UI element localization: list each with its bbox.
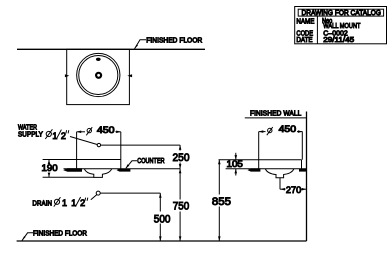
svg-text:DATE: DATE — [296, 37, 312, 44]
855 top arrow — [218, 160, 221, 165]
svg-text:105: 105 — [227, 159, 243, 169]
drain ring (plan) — [96, 73, 101, 78]
title block outer box — [295, 7, 387, 44]
svg-text:COUNTER: COUNTER — [137, 158, 165, 165]
250 dim line — [179, 145, 181, 150]
dia450 left arrow (front) — [77, 131, 82, 134]
diameter symbol (drain) — [54, 199, 59, 204]
svg-text:29/11/45: 29/11/45 — [323, 37, 354, 44]
finished floor line (bottom) — [17, 240, 307, 242]
190 top arrow — [48, 160, 51, 165]
svg-text:DRAWING FOR CATALOG: DRAWING FOR CATALOG — [302, 10, 382, 17]
500 bottom arrow — [159, 236, 162, 241]
counter square (plan view) — [67, 49, 130, 104]
svg-text:WALL MOUNT: WALL MOUNT — [323, 23, 361, 30]
svg-text:270: 270 — [286, 185, 301, 195]
drain leader — [91, 195, 97, 200]
drain point circle — [96, 191, 100, 195]
title block divider — [316, 16, 318, 44]
counter hatch right (front) — [117, 169, 131, 172]
drain line to 500 dim — [100, 192, 160, 194]
counter line (side view) — [226, 168, 307, 170]
dia450 right extension (side) — [301, 132, 303, 160]
dia450 right arrow (front) — [116, 131, 121, 134]
750 dim line — [179, 169, 181, 200]
svg-text:250: 250 — [173, 152, 190, 164]
svg-text:450: 450 — [279, 124, 297, 134]
diameter symbol (water supply) — [46, 131, 51, 136]
750 top arrow — [179, 169, 182, 174]
basin outer circle (plan) — [77, 53, 120, 96]
centerline arrow left edge — [65, 74, 69, 77]
centerline arrow right edge — [127, 74, 132, 77]
855 dim line — [218, 160, 220, 195]
wall line — [306, 112, 308, 242]
svg-text:2: 2 — [80, 198, 85, 208]
counter hatch left (side) — [248, 168, 261, 171]
basin rim top line (side view) — [219, 159, 302, 161]
250 bottom arrow — [179, 164, 182, 169]
title block header box — [298, 9, 383, 16]
svg-text:FINISHED WALL: FINISHED WALL — [250, 111, 301, 118]
water supply line to dim — [101, 144, 181, 146]
svg-text:NAME: NAME — [296, 18, 314, 25]
svg-text:855: 855 — [212, 196, 231, 208]
counter hatch right (side) — [299, 169, 306, 172]
basin bowl profile (side view) — [265, 169, 294, 178]
dia450 left extension line (front) — [76, 132, 78, 169]
diameter symbol (front dim) — [87, 128, 91, 132]
svg-text:750: 750 — [173, 201, 189, 213]
svg-text:DRAIN: DRAIN — [32, 200, 52, 207]
dia450 dim line (front view) — [77, 131, 85, 133]
270 dim line — [280, 188, 286, 190]
dia450 left arrow (side) — [259, 130, 264, 133]
svg-text:190: 190 — [42, 163, 58, 173]
svg-text:1: 1 — [62, 198, 67, 208]
finished wall underline — [245, 117, 307, 119]
270 left arrow — [280, 188, 285, 191]
dia450 right extension line (front) — [120, 132, 122, 169]
500 dim line — [159, 193, 161, 211]
500 top arrow — [159, 193, 162, 198]
svg-text:450: 450 — [97, 125, 115, 135]
dia450 right arrow (side) — [298, 130, 303, 133]
svg-text:SUPPLY: SUPPLY — [18, 131, 43, 138]
basin bowl profile (front view) — [84, 169, 112, 178]
basin rim top line (front view) — [43, 159, 121, 161]
finished floor line (top plan view) — [17, 48, 205, 50]
basin inner circle (plan) — [79, 55, 118, 94]
svg-text:2: 2 — [61, 131, 66, 141]
drain pipe (side view) — [279, 178, 281, 190]
counter hatch left (front) — [63, 168, 82, 172]
leader to FINISHED FLOOR (top) — [135, 40, 147, 49]
750 bottom arrow — [179, 236, 182, 241]
counter line (front view) — [64, 168, 181, 170]
105 dim arrows — [235, 153, 237, 160]
dia450 dim line (side view) — [259, 131, 266, 133]
water supply leader — [70, 137, 97, 145]
svg-text:500: 500 — [154, 213, 171, 225]
svg-text:FINISHED FLOOR: FINISHED FLOOR — [146, 37, 202, 44]
faucet hole (plan) — [96, 58, 101, 61]
250 top arrow — [179, 145, 182, 150]
leader to FINISHED FLOOR (bottom) — [22, 233, 33, 241]
dia450 left extension (side) — [258, 132, 260, 169]
svg-text:FINISHED FLOOR: FINISHED FLOOR — [33, 230, 87, 237]
190 bottom extension line — [43, 176, 94, 178]
water supply point circle — [97, 143, 100, 146]
270 right arrow — [302, 188, 307, 191]
190 bottom arrow — [48, 173, 51, 178]
counter leader — [126, 161, 137, 168]
arrowhead of top floor leader — [134, 44, 138, 49]
855 bottom arrow — [218, 236, 221, 241]
basin back edge (side view) — [301, 160, 303, 169]
diameter symbol (side dim) — [268, 128, 272, 132]
190 dim line — [48, 160, 50, 164]
